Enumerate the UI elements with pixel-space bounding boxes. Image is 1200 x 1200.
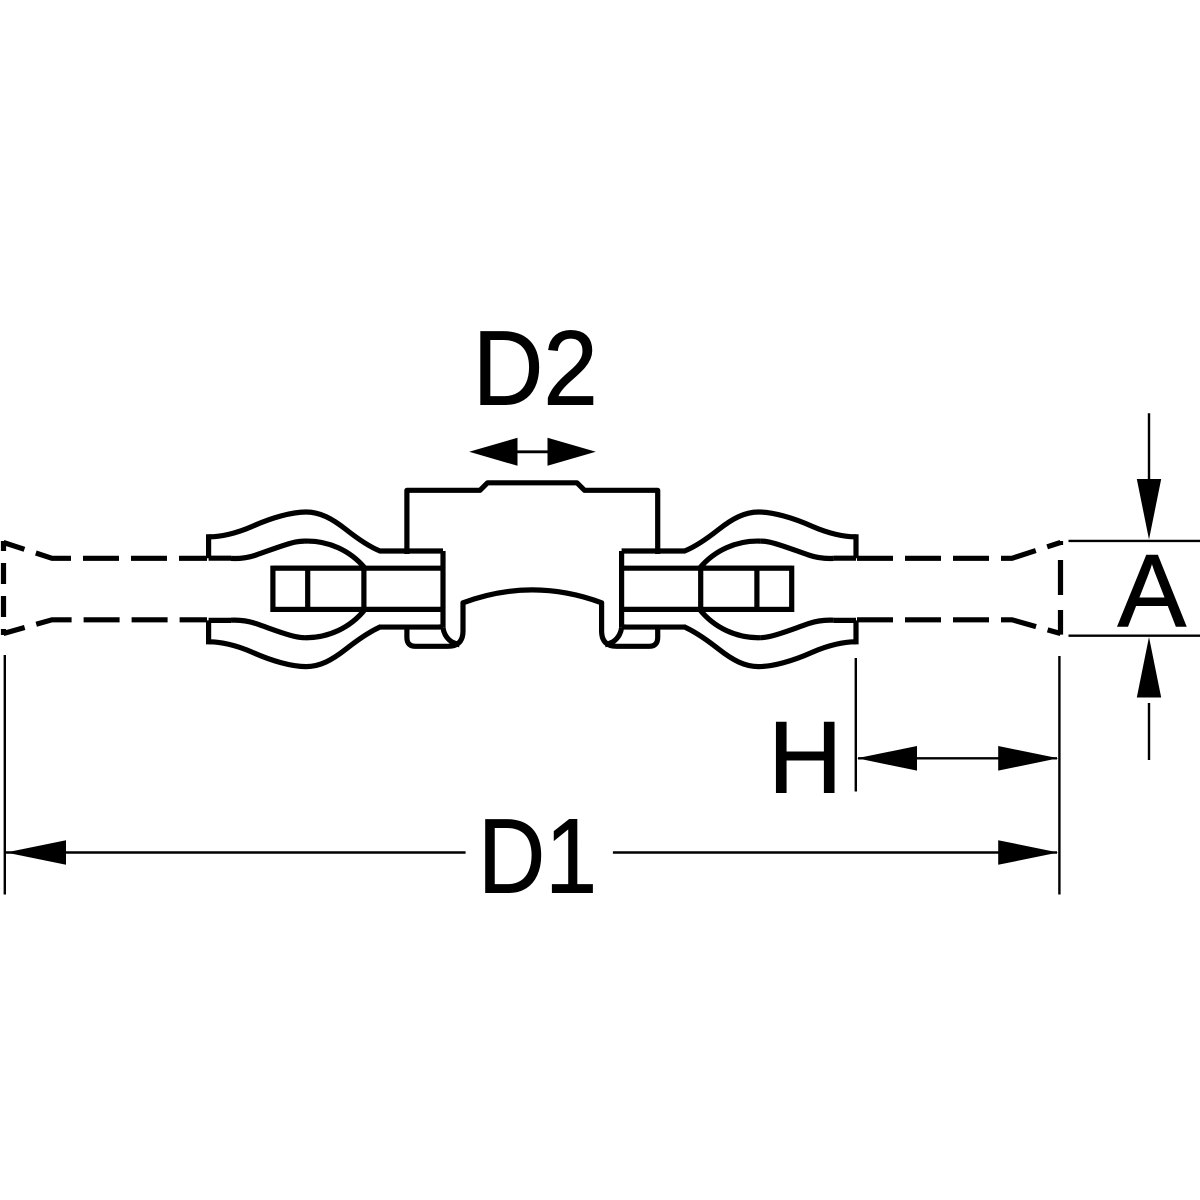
band upper outer edge <box>622 512 856 551</box>
ball lower arc <box>700 609 761 637</box>
svg-text:A: A <box>1118 533 1187 648</box>
wire pipe left end dashed vertical <box>1 541 6 635</box>
band lower inner edge <box>760 620 834 638</box>
band lower end cap <box>834 620 856 644</box>
band lower inner edge <box>231 620 305 638</box>
housing right edge and hook inner arc <box>605 551 622 645</box>
clamp right (mirror) <box>605 512 856 667</box>
dimension A <box>1069 413 1200 760</box>
clamp left <box>209 512 460 667</box>
band lower outer edge <box>622 627 856 667</box>
slot lines <box>622 568 792 609</box>
band upper inner edge <box>231 541 305 558</box>
band lower outer edge <box>209 627 443 667</box>
bolt rect <box>273 568 364 609</box>
dimension D2 arrow <box>469 438 596 466</box>
dimension D1 <box>5 655 1057 895</box>
band upper end cap <box>834 534 856 558</box>
ball upper arc <box>305 541 366 568</box>
ball lower arc <box>305 609 366 637</box>
bridge spring clip body <box>407 483 658 647</box>
bolt divider <box>754 568 759 609</box>
wire pipe left bottom dashed flare <box>4 620 208 634</box>
svg-text:H: H <box>768 701 842 815</box>
bolt rect <box>701 568 792 609</box>
band upper inner edge <box>760 541 834 558</box>
band upper end cap <box>209 534 231 558</box>
wire pipe right end dashed vertical <box>1058 541 1063 635</box>
band upper outer edge <box>209 512 443 551</box>
svg-text:D2: D2 <box>473 310 598 428</box>
ball upper arc <box>700 541 761 568</box>
wire pipe left top dashed flare <box>4 543 208 559</box>
bolt divider <box>305 568 310 609</box>
band lower end cap <box>209 620 231 644</box>
dimension H <box>856 656 1060 895</box>
housing cover <box>626 554 685 625</box>
slot lines <box>273 568 443 609</box>
housing right edge and hook inner arc <box>443 551 460 645</box>
svg-text:D1: D1 <box>478 797 597 915</box>
wire pipe right top dashed flare <box>857 543 1061 559</box>
wire pipe right bottom dashed flare <box>857 620 1061 634</box>
housing cover <box>380 554 439 625</box>
